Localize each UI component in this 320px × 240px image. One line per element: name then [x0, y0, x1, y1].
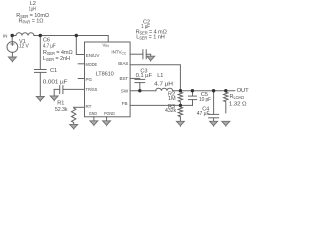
svg-text:PGND: PGND — [104, 111, 115, 116]
svg-text:4.7 µH: 4.7 µH — [154, 82, 173, 88]
svg-text:TR/SS: TR/SS — [86, 87, 98, 92]
svg-text:PG: PG — [86, 77, 93, 82]
svg-text:VIN: VIN — [102, 42, 109, 48]
svg-text:RLOAD: RLOAD — [230, 94, 245, 100]
svg-text:SW: SW — [121, 89, 129, 94]
svg-text:12 V: 12 V — [19, 44, 29, 50]
svg-text:IN: IN — [3, 33, 7, 38]
svg-text:R1: R1 — [57, 101, 64, 107]
svg-text:RT: RT — [86, 104, 92, 109]
svg-text:EN/UV: EN/UV — [86, 53, 101, 58]
svg-text:10 pF: 10 pF — [199, 97, 212, 103]
svg-text:LSER = 1 nH: LSER = 1 nH — [136, 35, 165, 41]
svg-text:0.1 µF: 0.1 µF — [136, 73, 153, 79]
svg-text:47 µF: 47 µF — [197, 111, 210, 117]
svg-text:MODE: MODE — [86, 62, 98, 67]
svg-text:4.7 µF: 4.7 µF — [43, 43, 56, 49]
svg-text:C1: C1 — [50, 68, 57, 74]
svg-text:52.3k: 52.3k — [55, 107, 68, 113]
svg-text:432k: 432k — [165, 108, 176, 114]
svg-text:FB: FB — [122, 101, 128, 106]
svg-text:INTVCC: INTVCC — [111, 50, 126, 56]
svg-text:BIAS: BIAS — [118, 61, 128, 66]
svg-text:1.32 Ω: 1.32 Ω — [229, 101, 247, 107]
svg-text:GND: GND — [89, 111, 98, 116]
svg-text:1M: 1M — [168, 96, 176, 102]
svg-text:LSER = 2nH: LSER = 2nH — [43, 56, 70, 62]
svg-text:BST: BST — [120, 76, 129, 81]
svg-text:0.001 µF: 0.001 µF — [43, 79, 68, 85]
svg-text:RPAR = 1Ω: RPAR = 1Ω — [19, 19, 44, 25]
svg-text:OUT: OUT — [237, 88, 250, 94]
svg-text:LT8610: LT8610 — [96, 71, 114, 77]
svg-text:L1: L1 — [157, 73, 163, 79]
svg-text:1µH: 1µH — [29, 6, 36, 12]
